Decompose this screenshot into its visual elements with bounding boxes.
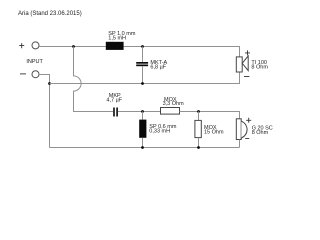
svg-text:0,33 mH: 0,33 mH	[149, 129, 170, 135]
wire hop branch from top rail down across mid rail	[74, 47, 114, 112]
node junction branch rail x198	[197, 110, 200, 113]
svg-text:8 Ohm: 8 Ohm	[251, 65, 268, 71]
wire mid rail	[50, 72, 240, 84]
svg-text:15 Ohm: 15 Ohm	[204, 130, 224, 136]
capacitor MKT-A 6,8 uF	[136, 47, 167, 84]
node junction mid rail x49	[48, 82, 51, 85]
svg-text:6,8 µF: 6,8 µF	[150, 64, 166, 70]
wire plus input to inductor	[39, 46, 106, 48]
resistor MOX 3,3 Ohm	[161, 97, 185, 114]
speaker TI 100	[236, 50, 268, 76]
svg-text:INPUT: INPUT	[26, 59, 43, 65]
svg-text:8 Ohm: 8 Ohm	[252, 130, 269, 136]
svg-text:1,5 mH: 1,5 mH	[108, 35, 126, 41]
svg-text:4,7 µF: 4,7 µF	[106, 98, 122, 104]
node junction mid rail x142	[141, 82, 144, 85]
node junction top rail x142	[141, 45, 144, 48]
resistor MOX 15 Ohm	[195, 112, 224, 148]
speaker G 20 SC	[236, 118, 273, 140]
node junction branch rail x142	[141, 110, 144, 113]
capacitor MKP 4,7 uF	[106, 93, 122, 116]
wire minus input down to bottom rail	[39, 75, 50, 148]
INPUT label	[26, 59, 43, 65]
wire MKP to MOX resistor	[118, 111, 161, 113]
svg-text:Aria (Stand 23.06.2015): Aria (Stand 23.06.2015)	[18, 11, 82, 17]
wire bottom rail	[50, 147, 240, 149]
inductor SP 0,6 mm 0,33 mH	[139, 112, 177, 148]
terminal +	[19, 42, 39, 49]
wire MOX 3,3 to right corner down to speaker G20SC	[180, 112, 240, 119]
terminal -	[20, 71, 39, 78]
node junction bottom rail x198	[197, 146, 200, 149]
inductor SP 1,0 mm 1,5 mH	[106, 31, 136, 50]
wire speaker G20SC down to bottom rail	[239, 140, 241, 148]
node junction top rail x73	[72, 45, 75, 48]
wire inductor to top-right corner and down to speaker	[124, 47, 240, 57]
svg-text:3,3 Ohm: 3,3 Ohm	[163, 101, 185, 107]
title label	[18, 11, 82, 17]
node junction bottom rail x142	[141, 146, 144, 149]
